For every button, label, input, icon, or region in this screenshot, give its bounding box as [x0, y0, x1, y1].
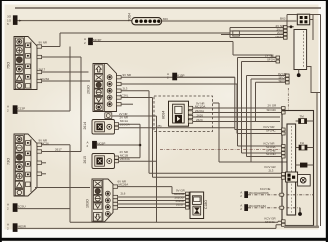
svg-text:C13P: C13P [18, 106, 26, 110]
KCV NR pin pair [282, 128, 286, 135]
connector 2x2 dots [297, 14, 309, 25]
pin icons [15, 136, 23, 196]
wire ME5R long bottom run [17, 225, 282, 229]
inner connector strip [287, 124, 296, 215]
down arrow icon [93, 213, 102, 221]
svg-text:2L3: 2L3 [123, 86, 128, 90]
sensor wires [193, 108, 282, 122]
right pin nubs [113, 195, 118, 209]
svg-text:MC4OA: MC4OA [249, 191, 259, 195]
svg-text:2V GR: 2V GR [268, 103, 277, 107]
right pin nubs [37, 45, 42, 83]
bottom pins of assembly [282, 220, 286, 227]
bottom connector block with dots [286, 172, 298, 182]
top rule [15, 7, 321, 9]
right pin nubs [37, 143, 42, 175]
svg-text:SFO4C: SFO4C [266, 128, 276, 132]
wires from block 730 [35, 145, 90, 222]
svg-text:SFO4G: SFO4G [265, 220, 276, 224]
svg-text:SFO4D: SFO4D [266, 152, 276, 156]
pin dots [135, 20, 138, 23]
vertical from node x60 to block1 [59, 33, 61, 47]
svg-text:FH: FH [300, 141, 304, 145]
svg-text:MC4OP: MC4OP [249, 204, 259, 208]
svg-text:C18O: C18O [204, 200, 208, 209]
relay white box [294, 30, 307, 70]
up arrow icon [94, 65, 103, 74]
wire y27.5 [230, 27, 284, 29]
assembly frame [287, 15, 321, 227]
svg-text:6: 6 [7, 22, 9, 26]
right circle pins [105, 191, 110, 216]
svg-text:2L6: 2L6 [121, 192, 126, 196]
loop SF04 a [247, 76, 286, 157]
svg-text:ME5R: ME5R [18, 224, 27, 228]
svg-text:2617: 2617 [55, 148, 62, 152]
bottom extra pin [105, 113, 112, 119]
svg-text:MC26A: MC26A [119, 183, 129, 187]
svg-text:9V NR: 9V NR [123, 73, 132, 77]
svg-text:B63: B63 [280, 17, 286, 21]
small mid pins [26, 43, 31, 88]
svg-text:2617: 2617 [39, 68, 46, 72]
right circle pins [107, 75, 112, 107]
wire K15P joins row [177, 76, 235, 78]
right pin nubs [188, 106, 192, 123]
dash-dot sensor line [160, 149, 282, 151]
bulb icon [194, 207, 199, 213]
wire y34.5 [221, 34, 284, 36]
svg-text:75O: 75O [7, 62, 11, 69]
ground blob on diag line [299, 208, 301, 213]
svg-text:8O34: 8O34 [161, 111, 165, 119]
wire bottom run from x70 rail [70, 220, 282, 223]
svg-text:2615: 2615 [83, 156, 87, 164]
svg-text:AC262: AC262 [40, 77, 50, 81]
lower black component [296, 164, 314, 166]
lamp unit input pins [186, 192, 190, 209]
feed wires into fuse assembly [60, 28, 284, 47]
block4 top pin wire to lamp unit [118, 187, 186, 194]
bottom connector pins KCV GR / 2L3 [282, 173, 286, 180]
loop SF04 c [256, 82, 286, 121]
wires from 1630 to lamp unit [118, 197, 186, 208]
4-stack pins [282, 145, 286, 159]
relay box with motor symbol [298, 175, 311, 187]
svg-text:KC62: KC62 [259, 204, 267, 208]
svg-text:SFO4: SFO4 [279, 79, 287, 83]
SW1 wires [119, 124, 141, 157]
svg-text:262D: 262D [176, 202, 183, 206]
loop pin1 [238, 58, 282, 147]
wire y37.5 [230, 37, 284, 39]
fuse TM at strip top [296, 120, 314, 122]
loop pin2 [242, 62, 282, 154]
wire pill to fuse box [162, 20, 297, 22]
svg-text:7OO4: 7OO4 [127, 13, 131, 22]
wires from 2630 [112, 77, 282, 222]
mid pins [26, 141, 31, 187]
wire 2CSU to x70 rail [17, 208, 70, 210]
svg-text:HO8O6: HO8O6 [259, 191, 269, 195]
junction dot [139, 144, 142, 147]
outline [14, 37, 37, 90]
svg-text:2614: 2614 [83, 122, 87, 130]
right pin nubs [117, 76, 122, 106]
thick scan border bottom of assembly [284, 226, 319, 228]
outline with wedge [92, 179, 113, 222]
left pin column of fuse assembly [276, 24, 288, 39]
wire y31 long from node x60 [60, 28, 284, 38]
icon rows left [94, 74, 103, 110]
connector MC3P on ignition feed [84, 37, 276, 57]
svg-text:SFO4C: SFO4C [267, 108, 277, 112]
connector block BB00 [13, 16, 17, 25]
svg-text:163O: 163O [86, 199, 90, 208]
right exit path down to rail [307, 67, 321, 227]
SW2 wires [119, 157, 141, 159]
svg-text:2CSU: 2CSU [18, 204, 26, 208]
svg-text:73O: 73O [7, 158, 11, 165]
sensor body [169, 101, 189, 126]
wires from block 750 [42, 47, 90, 152]
svg-text:SFO4: SFO4 [267, 57, 275, 61]
svg-text:9V NR: 9V NR [39, 41, 48, 45]
y162 line from bus x219 [213, 103, 287, 162]
svg-text:AC26L: AC26L [120, 93, 129, 97]
dash-dot drop into assembly [287, 88, 289, 110]
wire BB00 to pill [17, 20, 132, 22]
pin icons left column [15, 38, 23, 89]
loop SF04 b [251, 79, 287, 162]
2V GR pins (top of box) [282, 107, 286, 114]
interconnector 7004 (6-way pill) [127, 13, 296, 25]
ground stem and blob [298, 70, 300, 74]
wire C13P up-bus [17, 47, 70, 112]
icon rows [93, 180, 102, 221]
svg-text:KCV NE: KCV NE [260, 187, 271, 191]
svg-text:TM: TM [300, 115, 305, 119]
pins of loop wires (top) [276, 56, 289, 84]
outline with top wedge [93, 64, 117, 112]
wire MC3P to bus x221 [92, 42, 276, 58]
outer box [282, 111, 314, 226]
outline [14, 134, 37, 196]
svg-text:2L3: 2L3 [269, 169, 274, 173]
svg-text:263O: 263O [87, 85, 91, 94]
mid fuse [296, 147, 314, 149]
